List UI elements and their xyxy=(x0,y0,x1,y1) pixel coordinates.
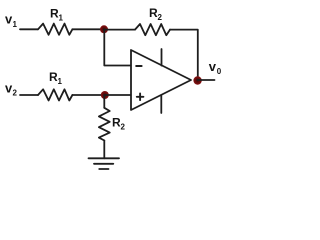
wire R2 to ground xyxy=(103,141,105,159)
output node junction xyxy=(193,76,201,84)
wire v2 to R1 xyxy=(20,94,38,96)
wire node B down to R2 xyxy=(103,95,105,108)
label R2 (feedback) xyxy=(149,6,163,22)
input v1 label xyxy=(5,12,18,30)
resistor R2 (to ground) xyxy=(99,108,110,141)
input v2 label xyxy=(5,81,18,98)
resistor R1 (top) xyxy=(38,24,72,35)
wire R2 to output node xyxy=(170,30,198,81)
op-amp negative supply pin xyxy=(160,95,162,113)
node A junction xyxy=(100,25,108,33)
svg-text:2: 2 xyxy=(121,123,126,132)
wire node B to non-inverting input xyxy=(105,94,131,96)
ground xyxy=(89,158,120,169)
resistor R2 (feedback) xyxy=(135,24,170,35)
op-amp positive supply pin xyxy=(161,49,163,66)
op-amp inverting input '-' xyxy=(136,65,141,67)
svg-text:1: 1 xyxy=(13,20,18,29)
svg-text:2: 2 xyxy=(158,13,163,22)
node B junction xyxy=(101,91,109,99)
wire output stub xyxy=(198,79,215,81)
svg-text:v: v xyxy=(209,59,217,74)
wire v1 to R1 xyxy=(20,28,38,30)
label R1 (top) xyxy=(50,7,64,23)
wire R1 to node A xyxy=(72,28,104,30)
svg-text:1: 1 xyxy=(59,14,64,23)
resistor R1 (bottom) xyxy=(38,89,72,100)
wire R1 to node B xyxy=(72,94,105,96)
svg-text:0: 0 xyxy=(217,67,222,76)
output v0 label xyxy=(209,59,222,76)
svg-text:1: 1 xyxy=(58,77,63,86)
wire node A to R2 xyxy=(104,29,135,31)
label R2 (to ground) xyxy=(112,116,126,132)
wire node A down to inverting input xyxy=(104,29,131,65)
label R1 (bottom) xyxy=(49,70,63,86)
op-amp U1 triangle xyxy=(131,50,191,110)
svg-text:2: 2 xyxy=(13,89,18,98)
op-amp non-inverting input '+' xyxy=(137,94,144,101)
